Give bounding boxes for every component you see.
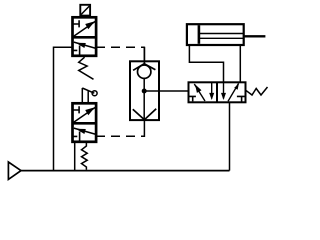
valve V3 body: [189, 82, 246, 102]
junction node: [142, 89, 147, 94]
wire supply branch to valve V1: [54, 47, 73, 170]
shuttle valve body: [130, 61, 159, 120]
valve V1 box1 blocked port T: [73, 20, 79, 27]
valve V3 left box blocked port T: [189, 96, 196, 101]
valve V1 box1 flow arrow: [73, 21, 96, 37]
valve V3 left box flow arrow: [194, 84, 205, 101]
valve V3 right box flow arrow: [228, 83, 239, 101]
valve V2 box2 exhaust blocked: [73, 132, 80, 142]
valve V2 box2 flow arrow: [74, 128, 96, 134]
wire shuttle valve to valve V3 pilot: [144, 90, 188, 92]
valve V1 return spring: [79, 57, 94, 79]
valve V2 body: [73, 103, 97, 142]
valve V2 box1 blocked port T: [73, 106, 79, 113]
compressed air source: [8, 162, 21, 179]
valve V3 right box blocked port T: [237, 96, 245, 101]
valve V2 roller lever actuator: [82, 88, 97, 103]
wire valve V2 supply from rail: [74, 142, 76, 171]
shuttle valve internal line: [143, 78, 145, 120]
valve V1 body: [73, 17, 97, 56]
cylinder rod: [199, 34, 265, 39]
shuttle valve upper seat: [133, 47, 155, 70]
valve V1 actuator (square with diagonal): [80, 5, 90, 16]
wire V3 supply from rail: [229, 102, 231, 170]
valve V1 box2 flow arrow: [74, 42, 96, 48]
shuttle valve lower seat: [133, 109, 156, 120]
wire cylinder left port to V3: [189, 45, 223, 82]
wire supply rail: [19, 170, 230, 172]
valve V2 return spring: [82, 143, 88, 170]
cylinder piston: [198, 25, 201, 44]
valve V3 right box down arrow: [221, 83, 226, 100]
cylinder body: [187, 24, 244, 45]
shuttle valve ball: [138, 65, 151, 78]
wire pilot V1 to shuttle valve (dashed): [96, 47, 144, 65]
valve V3 left box down arrow: [209, 83, 214, 100]
valve V1 box2 exhaust blocked: [73, 46, 80, 56]
wire V2 output to shuttle valve (dashed): [96, 120, 144, 137]
wire cylinder right port to V3: [239, 45, 241, 82]
valve V2 box1 flow arrow: [73, 107, 96, 123]
valve V3 return spring: [246, 87, 268, 95]
